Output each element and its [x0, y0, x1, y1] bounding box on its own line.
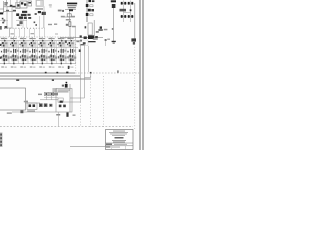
resistor R3 body	[27, 14, 30, 16]
wire horizontal cap row1 col1	[121, 2, 127, 4]
junction node A dot	[62, 10, 64, 12]
channel 5 cell	[39, 37, 48, 68]
wire horizontal collector bus	[60, 37, 103, 39]
capacitor C7 plate left	[121, 2, 123, 5]
transistor Q6 body	[86, 4, 89, 7]
wire vertical dotted net to title block	[134, 44, 136, 130]
varistor RV1 dot	[40, 104, 42, 106]
relay contact K3a outline	[44, 92, 48, 95]
label asterisk note 2	[52, 79, 54, 81]
wire vertical dashed zone divider 2	[103, 76, 105, 127]
title block company line	[113, 130, 125, 133]
wire horizontal corner to bus	[85, 77, 91, 79]
wire horizontal return net upper	[70, 97, 85, 99]
title block cell divider vertical 1	[111, 146, 113, 150]
relay K1 outline	[20, 1, 27, 8]
transistor Q3 body	[19, 16, 23, 19]
wire vertical dotted net A	[75, 44, 77, 72]
title block address line 1	[109, 131, 128, 134]
wire vertical from U4 to tick row	[43, 6, 45, 28]
wire horizontal return net lower	[59, 101, 81, 103]
transistor Q11 body	[80, 40, 82, 42]
junction dot under Q5	[35, 24, 37, 26]
capacitor C3 plate	[28, 2, 31, 4]
capacitor C8 plate right	[131, 2, 133, 5]
label inside U7 line 1	[58, 90, 71, 91]
label note text mid 1	[48, 24, 52, 25]
label note text	[17, 24, 20, 26]
diode D6 body	[80, 44, 84, 45]
wire vertical net to band right	[74, 26, 76, 40]
label note text mid 2	[54, 24, 57, 25]
label above band 3	[55, 33, 58, 34]
label D4 text	[96, 31, 99, 33]
connector J2 body	[0, 133, 2, 148]
capacitor C9 plate left	[121, 15, 123, 18]
wire vertical K3a to rail	[46, 96, 48, 100]
channel 6 cell	[48, 37, 57, 68]
ground symbol bar 2	[113, 43, 115, 44]
wire vertical TB1 to band	[9, 28, 11, 37]
wire vertical cap bank column 2	[130, 1, 132, 23]
amplifier A1 outline	[80, 40, 88, 46]
channel 1 cell	[1, 37, 10, 68]
transistor Q10 body	[131, 38, 136, 41]
IC U6 outline large empty box	[0, 88, 26, 110]
varistor RV2 dot	[45, 104, 47, 106]
wire horizontal under K3	[40, 99, 58, 101]
capacitor C3 outline	[28, 1, 32, 6]
transistor Q7 body	[86, 13, 89, 16]
label spare gate text 1	[49, 4, 52, 5]
wire vertical from cluster stub	[22, 19, 24, 28]
fuse F1 body	[66, 112, 68, 116]
transistor Q8 body	[88, 35, 94, 39]
junction cluster at tick row start	[5, 26, 8, 28]
label L1 text	[58, 10, 62, 12]
wire horizontal bus line 3	[0, 78, 91, 80]
label C20 text	[62, 85, 64, 87]
header label block title	[67, 3, 77, 5]
capacitor C20 polarity dot	[66, 82, 68, 84]
crystal Y1 body	[38, 11, 41, 13]
diode D5 body	[95, 36, 98, 38]
junction bus node 1	[45, 72, 47, 74]
wire horizontal bus to K1	[3, 10, 16, 12]
label U4 text	[35, 8, 43, 10]
title block divider lower	[106, 145, 134, 147]
relay K2 coil outline tall	[88, 23, 92, 35]
note text line 2	[68, 7, 76, 8]
wire vertical feedback net 1	[80, 45, 82, 102]
wire vertical net N1 top-left	[3, 1, 5, 13]
page border inner line	[139, 0, 141, 150]
label left edge tick 1	[0, 44, 1, 46]
relay contact K3b mark	[51, 93, 53, 95]
wire horizontal under note	[65, 9, 76, 11]
label channel 8 tall text	[68, 66, 70, 69]
wire horizontal bus line 1 dashed right	[75, 72, 139, 74]
diode D4 body	[84, 36, 87, 39]
capacitor C20 body	[65, 84, 68, 88]
relay K1 coil contact B	[24, 3, 26, 5]
title block address line 3	[112, 134, 125, 137]
label C1 text	[6, 10, 9, 12]
wire vertical feedback net 3	[88, 46, 90, 72]
title block subtitle line	[112, 139, 126, 142]
bridge rectifier BR1 outline	[27, 103, 37, 110]
wire vertical feedback net 2	[84, 45, 86, 98]
diode D2 body	[3, 20, 5, 22]
IC U3 body	[21, 14, 27, 16]
connector J2 pin 2	[0, 137, 2, 139]
wire vertical from Q3	[20, 19, 22, 26]
diode D3 body	[65, 40, 67, 43]
diode D9 body	[59, 105, 62, 108]
label BR1 text	[27, 110, 35, 111]
label R1 ref text	[4, 4, 7, 5]
label K3 text	[38, 94, 42, 96]
label bottom rail text	[7, 112, 12, 113]
label Q3 text	[19, 21, 22, 24]
note text line B	[52, 90, 57, 91]
wire horizontal left edge stub	[0, 20, 8, 22]
thermistor RT1 body	[105, 39, 107, 41]
resistor R5 body	[69, 22, 71, 27]
relay K1 coil contact A	[21, 2, 23, 4]
wire horizontal cap row1 col2	[128, 2, 134, 4]
ground symbol bar	[112, 41, 116, 42]
label RT1 text	[107, 39, 110, 40]
capacitor C5 pair body	[91, 9, 94, 11]
varistor RV2 body	[44, 103, 48, 107]
transistor Q5 body	[42, 12, 46, 15]
junction tick on bus right	[117, 70, 118, 72]
resistor R8 band	[50, 105, 51, 106]
title block scale text	[112, 146, 120, 149]
IC U7 outline box	[56, 89, 72, 113]
connector J1 pin block	[0, 12, 3, 14]
wire horizontal left edge	[0, 8, 4, 10]
terminal strip TB1 tall outline	[7, 7, 12, 29]
wire horizontal band rail B	[0, 47, 78, 49]
wire horizontal stub	[60, 38, 66, 40]
junction dot under Y1	[34, 22, 36, 24]
title block address line 2	[110, 133, 127, 136]
diode D8 body	[33, 104, 36, 107]
label K2 pin text	[85, 26, 87, 28]
wire vertical C6 to ground	[113, 8, 115, 41]
label net name text	[72, 26, 76, 28]
wire vertical right rail	[134, 3, 136, 44]
wire vertical to D1	[10, 0, 12, 5]
wire horizontal K3 lower link	[44, 97, 58, 99]
page border outer line	[142, 0, 144, 150]
connector J2 pin 1	[0, 134, 2, 136]
wire horizontal bus line 2	[0, 75, 80, 77]
wire vertical right of K2	[93, 20, 95, 38]
wire vertical stub above BR1	[26, 100, 28, 103]
title block cell divider vertical 2	[125, 146, 127, 150]
channel 7 cell	[58, 37, 67, 68]
label R5 value	[66, 24, 68, 26]
resistor R8 body	[49, 104, 52, 107]
wire dashed horizontal zone divider bottom	[0, 126, 133, 128]
wire vertical from Q5 stub	[43, 15, 45, 28]
resistor R4 body	[28, 17, 31, 19]
wire vertical R5 to band	[69, 26, 71, 37]
wire vertical corner stub	[90, 73, 92, 78]
wire horizontal sheet bottom rule left of title block	[70, 146, 106, 148]
resistor R2 body	[13, 6, 16, 8]
relay contact K3a mark	[45, 93, 47, 95]
wire horizontal to U2	[4, 6, 12, 8]
label Q11 text	[76, 41, 79, 43]
label F1 text	[56, 114, 60, 116]
title block sheet number text	[106, 146, 111, 147]
transistor Q9 body	[100, 26, 102, 28]
label R1 value text	[4, 2, 8, 3]
label S1 right text	[71, 16, 75, 18]
wire horizontal bottom rail	[12, 111, 56, 113]
label U5 text	[93, 38, 98, 39]
junction node C dot	[130, 9, 132, 11]
switch S1 outline	[67, 14, 71, 17]
wire vertical RT1 stub	[105, 41, 107, 46]
wire horizontal cap row2 col1	[121, 15, 127, 17]
note text line A	[52, 88, 57, 89]
wire vertical U7 to divider	[58, 112, 60, 127]
electrolytic capacitor C6 body	[112, 4, 116, 8]
wire vertical from cluster stub 2	[26, 19, 28, 28]
label spare gate text 2	[49, 6, 51, 7]
wire horizontal bus line 1	[0, 72, 75, 74]
wire horizontal to K1	[16, 7, 20, 9]
label cap bank WAY text	[120, 9, 127, 12]
title block outline	[106, 130, 134, 150]
title block drawing name MS 1 Rev	[115, 137, 124, 139]
label above band 1	[11, 33, 14, 34]
diode D7 body	[29, 104, 32, 107]
diode D1 body	[10, 5, 13, 7]
wire vertical L1 to R5	[69, 11, 71, 22]
note text line 1	[67, 5, 76, 6]
label zone text right	[73, 115, 76, 116]
relay K0 outline	[16, 3, 21, 9]
title block checked text	[114, 143, 127, 146]
label inside U7 line 2	[58, 91, 69, 92]
IC U4 window	[37, 1, 40, 5]
wire horizontal cap row2 col2	[128, 15, 134, 17]
capacitor C9 plate right	[124, 15, 126, 18]
wire vertical right side of U7	[69, 84, 71, 112]
resistor R7 outline	[90, 14, 93, 16]
capacitor C10 plate left	[128, 15, 130, 18]
label D2 text	[2, 22, 4, 24]
label C2 text	[13, 10, 16, 12]
channel 4 cell	[29, 37, 38, 68]
title block date line	[113, 142, 125, 143]
relay K4 outline	[58, 98, 63, 102]
label Y1 text	[35, 13, 37, 15]
transistor Q4 body	[24, 17, 27, 19]
inductor L1 body	[69, 9, 73, 11]
wire horizontal under cluster	[16, 19, 27, 21]
pin number tick row	[4, 27, 45, 29]
capacitor C7 plate right	[124, 2, 126, 5]
channel 2 cell	[10, 37, 19, 68]
junction tick on C6 wire	[112, 28, 114, 30]
junction node on bus at net 3	[90, 72, 92, 74]
wire vertical cap bank column 1	[123, 1, 125, 23]
junction bus node 3	[66, 72, 68, 74]
capacitor C8 plate left	[128, 2, 130, 5]
channel 8 cell	[67, 37, 76, 68]
channel 3 cell	[20, 37, 29, 68]
wire vertical K3b to rail	[51, 96, 53, 100]
label D7 text	[24, 101, 28, 103]
relay K4 contact mark	[60, 101, 63, 103]
transistor Q2 body	[16, 13, 19, 16]
resistor R6 outline	[90, 5, 93, 7]
label note rotated text left edge	[0, 26, 2, 30]
wire vertical dashed zone divider 1	[90, 76, 92, 127]
label R5 text	[66, 19, 71, 21]
transistor Q10 arrow mark	[133, 42, 135, 45]
wire horizontal band rail C	[0, 63, 76, 65]
transistor Q9 emitter mark	[98, 29, 102, 31]
connector J2 pin 4	[0, 144, 2, 146]
diode D2 mark	[2, 18, 4, 20]
junction node B dot	[80, 35, 82, 37]
note text block C	[53, 93, 58, 96]
wire vertical dashed continuation net 1	[80, 102, 82, 127]
capacitor C10 plate right	[131, 15, 133, 18]
wire stubs from tick row down to band	[9, 29, 11, 38]
label S1 left text	[61, 16, 65, 18]
capacitor C4 body	[88, 0, 91, 2]
relay K0 contact mark	[17, 4, 19, 6]
label U6 pin text	[20, 110, 23, 113]
title block drawn-by text	[106, 144, 112, 145]
wire horizontal band rail A	[0, 40, 80, 42]
wire vertical to K1	[16, 0, 18, 8]
capacitor C5 body	[88, 9, 91, 12]
label VCC net name	[111, 0, 116, 2]
wire horizontal at S1	[63, 16, 74, 18]
label net text vertical	[79, 49, 81, 52]
wire vertical below Q7	[86, 17, 88, 22]
wire vertical net N2 top-left	[6, 0, 8, 6]
label left edge tick 2	[0, 57, 1, 59]
wire vertical net V+ column	[86, 0, 88, 22]
cell boundary vertical rules	[0, 41, 1, 64]
wire horizontal cap bank mid link	[124, 11, 131, 13]
label asterisk note 1	[16, 79, 19, 81]
wire horizontal U6 to D7	[26, 102, 41, 104]
varistor RV1 body	[39, 103, 43, 107]
connector J2 pin 3	[0, 141, 2, 143]
wire vertical from Y1 stub	[39, 16, 41, 28]
IC U4 body shaded	[36, 0, 43, 6]
title block divider upper	[106, 142, 134, 144]
label above band 2	[31, 33, 35, 34]
capacitor C4 pair body	[92, 0, 95, 2]
IC U5 body bar	[88, 41, 96, 42]
wire dashed band top reference	[0, 36, 76, 38]
transistor Q12 body	[83, 42, 86, 44]
transistor Q1 body	[22, 11, 27, 13]
diode D10 body	[63, 105, 66, 108]
label Q9 text	[104, 29, 108, 31]
junction bus node 2	[56, 72, 58, 74]
relay contact K3b outline	[50, 92, 54, 95]
